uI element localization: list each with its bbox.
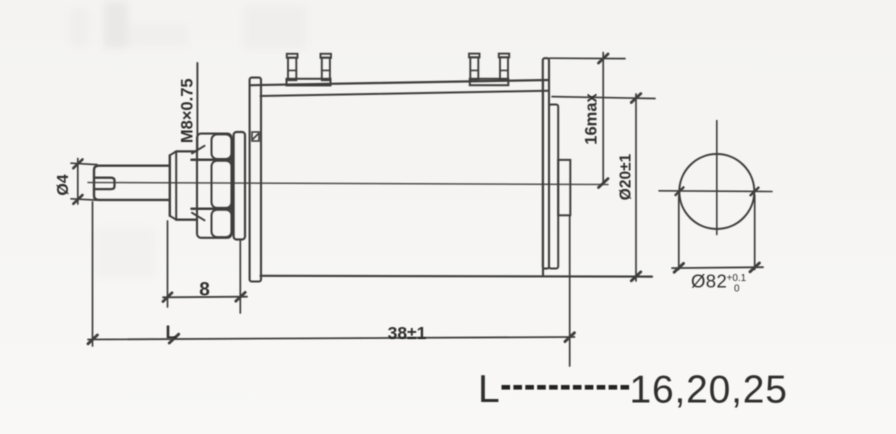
- svg-text:L: L: [166, 323, 177, 343]
- dimension 16max extension line: [550, 57, 626, 59]
- body cylinder bottom edge: [261, 275, 653, 278]
- dimension L and 38 dimension line: [88, 337, 575, 340]
- svg-text:Ø20±1: Ø20±1: [618, 153, 635, 200]
- dimension Ø4 arrow ticks: [73, 159, 82, 203]
- svg-text:M8×0.75: M8×0.75: [178, 78, 196, 143]
- dimension 8 dimension line: [163, 296, 247, 299]
- axis centerline: [88, 183, 608, 185]
- svg-text:Ø4: Ø4: [55, 174, 72, 195]
- dimension 38 extension line right: [569, 216, 571, 367]
- svg-text:+0.1: +0.1: [727, 273, 747, 284]
- body right edge: [542, 80, 544, 276]
- front end plate: [250, 78, 261, 282]
- dimension L and 38 arrow ticks: [88, 333, 574, 344]
- svg-text:8: 8: [199, 280, 210, 301]
- note dashes: [502, 385, 630, 390]
- dimension Ø82 arrow ticks: [674, 263, 759, 272]
- rear cover plate: [549, 105, 558, 269]
- end view vertical centerline: [716, 121, 718, 235]
- end view circle: [679, 154, 754, 229]
- dimension Ø82 extension lines: [679, 195, 755, 270]
- svg-text:Ø82: Ø82: [691, 271, 727, 292]
- hex nut outline: [197, 134, 232, 238]
- dimension 8 extension lines: [168, 221, 241, 313]
- shaft outline: [94, 166, 169, 200]
- end view horizontal centerline: [659, 190, 772, 193]
- dimension 16max dimension line: [602, 53, 604, 184]
- svg-text:38±1: 38±1: [388, 323, 427, 343]
- svg-text:16,20,25: 16,20,25: [630, 369, 788, 412]
- terminal lug group 2: [469, 54, 509, 86]
- shaft screwdriver slot: [94, 178, 115, 189]
- dimension Ø20 dimension line: [635, 94, 637, 281]
- leader line for M8x0.75 label: [196, 63, 198, 149]
- hex nut chamfer facets: [212, 134, 232, 237]
- rivet on front plate: [252, 132, 259, 141]
- body cylinder top edge: [251, 80, 549, 85]
- dimension Ø20 arrow ticks: [631, 94, 641, 281]
- body cylinder top inner edge: [261, 91, 549, 96]
- dimension Ø4 dimension line: [77, 159, 79, 205]
- rear terminal plate: [543, 58, 549, 268]
- terminal lug group 1: [287, 54, 332, 86]
- bushing thread chamfer marks: [192, 146, 205, 221]
- dimension Ø20 extension line: [552, 97, 655, 99]
- dimension Ø4 extension lines: [71, 163, 97, 200]
- svg-text:16max: 16max: [583, 92, 601, 144]
- mounting washer: [234, 132, 245, 240]
- threaded bushing M8: [170, 151, 197, 219]
- dimension 16max arrow ticks: [599, 54, 609, 188]
- dimension Ø82 dimension line: [672, 266, 763, 269]
- rear boss protrusion: [558, 160, 570, 215]
- svg-text:L: L: [478, 368, 500, 411]
- hex nut facet lines: [192, 160, 232, 209]
- dimension L and 38 extension line left: [92, 202, 94, 346]
- dimension 8 arrow ticks: [163, 292, 245, 301]
- svg-text:0: 0: [734, 284, 740, 295]
- end view diameter ticks: [676, 187, 759, 195]
